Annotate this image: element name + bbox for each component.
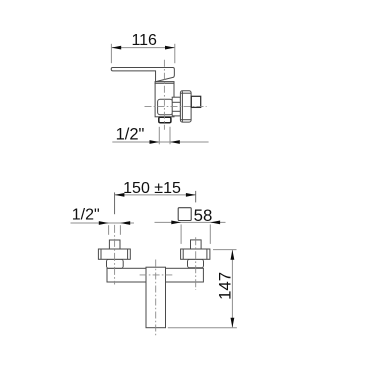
- bold shower outlet (side): [159, 117, 171, 122]
- hex nut (side): [172, 97, 180, 116]
- square inlet connector (side, bold): [191, 96, 200, 107]
- mixer body (front): [146, 267, 166, 328]
- ext line right 1/2" (top view): [169, 127, 171, 145]
- right flange inner line left: [182, 249, 184, 259]
- arrow 147 bottom: [231, 318, 235, 328]
- dim line 116: [112, 47, 174, 49]
- svg-text:116: 116: [131, 32, 157, 49]
- arrow 1/2" front right: [120, 221, 130, 225]
- svg-text:1/2": 1/2": [116, 125, 145, 143]
- dim line 147: [231, 250, 233, 327]
- centerline right inlet (upper ext): [195, 191, 197, 203]
- right union hex: [188, 259, 204, 268]
- centerline right inlet (lower): [195, 237, 197, 290]
- centerline body vertical (front): [155, 260, 157, 338]
- centerline left inlet (upper ext): [114, 192, 116, 214]
- arrow 1/2" top view right: [170, 140, 180, 144]
- connecting bar: [107, 268, 203, 282]
- left union hex: [107, 259, 124, 268]
- arrow 58 right: [210, 221, 220, 225]
- ext line right 58: [209, 224, 211, 244]
- centerline vertical (side view): [163, 60, 165, 130]
- square symbol for 58: [178, 208, 191, 221]
- arrow 150 right: [186, 193, 196, 197]
- centerline body horizontal (front): [140, 274, 173, 276]
- flange inner top line: [181, 92, 191, 94]
- arrow 147 top: [231, 250, 235, 260]
- arrow 116 left: [111, 46, 121, 50]
- left flange inner line right: [127, 249, 129, 259]
- flange inner bottom line: [181, 119, 191, 121]
- valve front box: [158, 99, 173, 115]
- svg-text:150 ±15: 150 ±15: [123, 180, 181, 197]
- arrow 1/2" front left: [99, 221, 109, 225]
- svg-text:1/2": 1/2": [72, 207, 100, 224]
- right wall flange: [181, 249, 210, 259]
- left flange inner line left: [100, 249, 102, 259]
- arrow 116 right: [165, 46, 175, 50]
- arrow 1/2" top view left: [150, 140, 160, 144]
- centerline horizontal (side view): [145, 106, 207, 108]
- ext line 147 top: [213, 249, 237, 251]
- arrow 150 left: [115, 193, 125, 197]
- mixer body (side): [155, 83, 174, 117]
- ext line right 116: [174, 44, 176, 63]
- dim line 1/2" (front): [71, 222, 135, 224]
- ext line left 1/2" (top view): [158, 127, 160, 145]
- svg-text:147: 147: [215, 272, 234, 300]
- svg-text:58: 58: [194, 206, 213, 225]
- cartridge collar: [155, 82, 174, 84]
- handle lever: [111, 67, 174, 81]
- ext line left 1/2" (front): [108, 225, 110, 235]
- left wall flange: [98, 249, 130, 259]
- centerline left inlet (lower): [114, 225, 116, 285]
- flange inner vertical line: [181, 91, 183, 122]
- wall flange (side): [180, 91, 191, 122]
- ext line left 116: [110, 44, 112, 63]
- ext line left 58: [180, 224, 182, 244]
- hex nut facet line upper: [172, 101, 180, 103]
- left inlet nut: [109, 240, 120, 249]
- ext line 147 bottom: [168, 327, 237, 329]
- dim line 1/2" (top view): [112, 141, 208, 143]
- ext line right 1/2" (front): [119, 225, 121, 235]
- right inlet nut: [191, 240, 202, 249]
- right flange inner line right: [206, 249, 208, 259]
- arrow 58 left: [171, 221, 181, 225]
- dim line 150: [115, 194, 196, 196]
- dim line 58: [155, 221, 226, 223]
- hex nut facet line lower: [172, 110, 180, 112]
